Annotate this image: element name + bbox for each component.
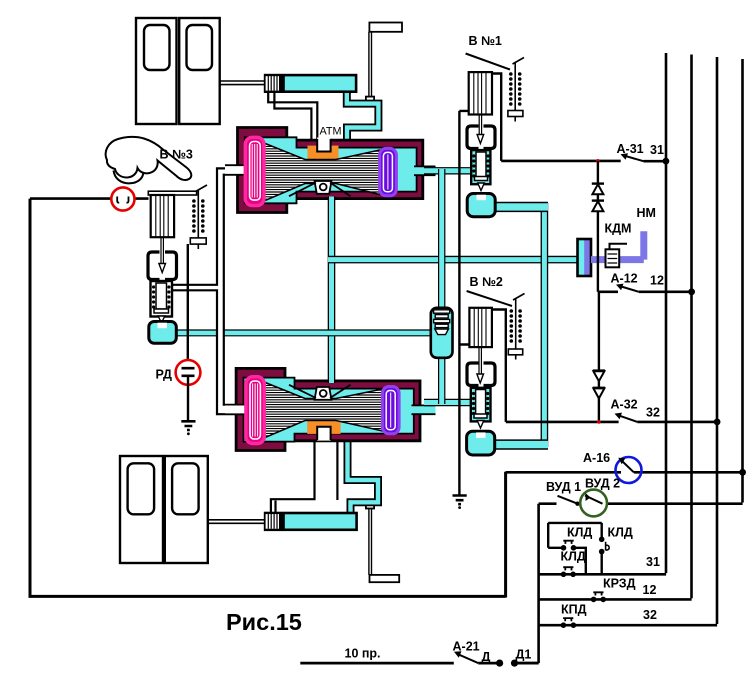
svg-text:ВУД 2: ВУД 2 bbox=[585, 477, 620, 491]
lever B N1 bbox=[466, 54, 510, 70]
cyan pipe H5 to valve2 bbox=[424, 399, 472, 406]
spring cylinder B N1 bbox=[471, 150, 490, 184]
wire A-12 bbox=[598, 290, 692, 293]
bus line 2 bbox=[539, 55, 692, 600]
svg-text:12: 12 bbox=[643, 583, 657, 597]
lower center mechanism bbox=[315, 387, 332, 400]
handle lever bottom bbox=[366, 504, 399, 582]
lower cylinder right port bbox=[412, 405, 436, 414]
white pipe door-engine-bottom to lower orange port bbox=[271, 427, 338, 514]
door rod top bbox=[220, 81, 266, 85]
B N3 contact circle bbox=[111, 187, 134, 210]
solenoid body B N3 bbox=[151, 195, 174, 237]
wire 10 pr with switch A-21 bbox=[300, 662, 538, 665]
lower cylinder left rod port bbox=[225, 405, 245, 415]
button plate bbox=[148, 191, 196, 195]
wire A-32 bbox=[506, 421, 717, 424]
valve1 (B N1) assembly bbox=[466, 54, 524, 217]
ground symbol valves bbox=[453, 496, 467, 505]
junction dot A-31 bbox=[663, 158, 670, 165]
KLD contact right bbox=[599, 537, 605, 543]
upper bellows bbox=[264, 143, 380, 201]
bus line 31 bbox=[539, 53, 667, 574]
bracket right B N1 bbox=[484, 126, 496, 149]
upper cylinder interior bbox=[245, 137, 417, 203]
svg-text:12: 12 bbox=[650, 274, 664, 288]
armature needle B N3 bbox=[161, 237, 163, 264]
svg-text:КЛД: КЛД bbox=[567, 526, 592, 540]
svg-text:В №3: В №3 bbox=[160, 148, 193, 162]
door leaf bottom-right bbox=[165, 456, 208, 563]
svg-text:А-16: А-16 bbox=[583, 451, 610, 465]
dots D and D1 bbox=[496, 660, 503, 667]
svg-text:КПД: КПД bbox=[561, 603, 587, 617]
door engine top bbox=[265, 75, 356, 92]
armature needle B N1 bbox=[479, 115, 481, 136]
diode D2 bbox=[592, 201, 604, 212]
ground RD bbox=[181, 421, 195, 430]
svg-text:АТМ: АТМ bbox=[320, 126, 342, 138]
bracket left B N2 bbox=[467, 363, 479, 386]
chamber B N1 bbox=[467, 194, 495, 217]
solenoid body B N2 bbox=[469, 308, 492, 347]
svg-text:В №1: В №1 bbox=[469, 34, 502, 48]
upper brake cylinder casing bbox=[225, 128, 436, 213]
svg-text:31: 31 bbox=[646, 555, 660, 569]
window top-left bbox=[144, 25, 170, 70]
bracket right B N2 bbox=[484, 363, 496, 386]
switch VUD1 bbox=[558, 496, 578, 504]
chamber B N2 bbox=[467, 431, 495, 455]
switch A-16 in blue circle bbox=[616, 457, 642, 483]
KDM device bbox=[606, 244, 628, 267]
purple piston lower bbox=[382, 387, 399, 434]
svg-text:А-32: А-32 bbox=[611, 398, 638, 412]
switch A-32 bbox=[618, 415, 637, 422]
valve3 (B N3) assembly bbox=[148, 185, 207, 343]
ATM orange port upper bbox=[308, 146, 339, 159]
window bottom-left bbox=[128, 463, 155, 514]
svg-text:Д1: Д1 bbox=[516, 648, 532, 662]
spring cylinder B N2 bbox=[471, 388, 491, 422]
white pipe door-engine-top to ATM port bbox=[268, 92, 331, 151]
svg-text:РД: РД bbox=[156, 368, 173, 382]
hand pressing button bbox=[106, 137, 192, 183]
NM purple pipe bbox=[591, 231, 644, 259]
svg-text:А-31: А-31 bbox=[617, 142, 644, 156]
window bottom-right bbox=[172, 463, 199, 514]
cyan pipe H2 valve1 chamber bbox=[492, 202, 548, 212]
cyan zigzag pipe Z2 lower cylinder to bottom-engine bbox=[348, 437, 379, 513]
wire VUD row bbox=[539, 502, 582, 505]
coil B N3 bbox=[197, 190, 199, 238]
RD pressure relay branch bbox=[176, 244, 201, 435]
door leaf top-left bbox=[136, 18, 177, 124]
diode D3 bbox=[593, 371, 605, 382]
KLD contact 2 bbox=[561, 572, 567, 578]
switch A-12 bbox=[620, 286, 639, 292]
svg-text:В №2: В №2 bbox=[470, 275, 503, 289]
wire A-31 bbox=[501, 160, 666, 163]
svg-text:КДМ: КДМ bbox=[605, 222, 632, 236]
coil B N1 bbox=[514, 62, 516, 111]
bracket left B N3 bbox=[148, 252, 160, 280]
window top-right bbox=[187, 25, 213, 70]
KPD contact bbox=[561, 622, 567, 628]
wire B N2 to A-32 bbox=[492, 310, 506, 422]
KRZD contact bbox=[591, 597, 597, 603]
spring cylinder B N3 bbox=[151, 281, 173, 317]
lower bellows bbox=[264, 382, 383, 438]
RD circle bbox=[176, 360, 201, 385]
upper center mechanism bbox=[315, 181, 332, 194]
handle lever top bbox=[366, 23, 402, 102]
pink piston lower bbox=[246, 377, 264, 444]
svg-text:КЛД: КЛД bbox=[561, 550, 586, 564]
door rod bottom bbox=[208, 520, 266, 524]
armature needle B N2 bbox=[479, 347, 481, 374]
throttle bbox=[431, 308, 453, 358]
switch VUD2 in green circle bbox=[580, 490, 607, 517]
KLD contact 1 bbox=[561, 545, 567, 551]
svg-text:КЛД: КЛД bbox=[608, 526, 633, 540]
ladder feed vertical bbox=[515, 504, 539, 663]
bracket left B N1 bbox=[467, 126, 479, 149]
svg-text:Рис.15: Рис.15 bbox=[226, 609, 302, 635]
bracket right B N3 bbox=[165, 252, 177, 280]
purple piston upper bbox=[380, 148, 397, 195]
orange port lower bbox=[307, 420, 340, 434]
cyan pipe H4 to valve1 bbox=[424, 167, 472, 174]
svg-text:31: 31 bbox=[650, 143, 664, 157]
door engine bottom bbox=[265, 513, 357, 530]
lower cylinder interior bbox=[244, 378, 414, 442]
upper cylinder right port bbox=[414, 166, 436, 175]
diode chain vertical bbox=[598, 161, 599, 422]
door leaf top-right bbox=[179, 18, 220, 124]
coil B N2 bbox=[515, 298, 517, 349]
svg-text:ВУД 1: ВУД 1 bbox=[546, 480, 581, 494]
svg-text:КРЗД: КРЗД bbox=[603, 577, 636, 591]
ground wire for valve coils bbox=[459, 111, 469, 495]
diode D4 bbox=[593, 388, 605, 399]
svg-text:А-21: А-21 bbox=[453, 640, 480, 654]
cyan main pipe H1 bbox=[328, 256, 580, 264]
cyan zigzag pipe Z1 top-engine to upper cylinder bbox=[343, 91, 379, 150]
svg-text:НМ: НМ bbox=[637, 206, 656, 220]
lower brake cylinder casing bbox=[225, 368, 436, 450]
cyan pipe V3 throttle branch bbox=[438, 169, 445, 404]
switch A-31 bbox=[624, 156, 644, 162]
wire B N3 button bbox=[30, 197, 149, 200]
svg-text:32: 32 bbox=[643, 608, 657, 622]
solenoid body B N1 bbox=[469, 72, 492, 114]
pink piston upper bbox=[245, 137, 264, 205]
diode D1 bbox=[592, 184, 604, 195]
svg-text:32: 32 bbox=[646, 406, 660, 420]
T-connector bbox=[578, 239, 592, 276]
valve2 (B N2) assembly bbox=[467, 291, 525, 455]
chamber B N3 bbox=[149, 322, 177, 344]
frame wiring left loop bbox=[29, 199, 506, 598]
bus line 4 bbox=[607, 59, 743, 504]
white pipe P3 valve3 to cylinder left ports bbox=[172, 168, 226, 414]
cyan pipe H3 valve2 chamber bbox=[492, 439, 548, 449]
bus line 3 bbox=[539, 57, 718, 625]
svg-text:А-12: А-12 bbox=[611, 272, 638, 286]
cyan pipe V1 between cylinders bbox=[328, 197, 336, 384]
wire A-16 bbox=[506, 471, 743, 474]
svg-text:Д: Д bbox=[482, 650, 491, 664]
upper cylinder left rod port bbox=[225, 165, 246, 175]
wire B N1 to A-31 bbox=[492, 74, 501, 161]
KLD block bbox=[548, 523, 602, 574]
cyan pipe H6 from valve3 bbox=[174, 329, 434, 336]
lever B N2 bbox=[467, 291, 512, 306]
svg-text:10 пр.: 10 пр. bbox=[345, 647, 381, 661]
door leaf bottom-left bbox=[120, 456, 163, 563]
cyan pipe V2 bbox=[541, 203, 549, 447]
